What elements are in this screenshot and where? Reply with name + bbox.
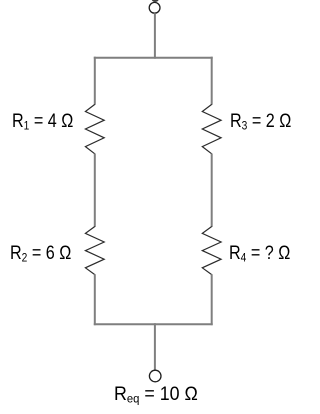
wire: top stem (154, 13, 156, 59)
wire: left branch upper (94, 57, 96, 105)
terminal (bottom) (149, 370, 161, 382)
label R2 = 6 ohm (10, 244, 71, 263)
wire: left branch lower (94, 274, 96, 325)
wire: bottom bus (94, 323, 213, 325)
wire: left branch middle (94, 154, 96, 228)
resistor R3 (202, 104, 221, 153)
label R4 = ? ohm (229, 244, 290, 263)
wire: top bus (94, 57, 213, 59)
top terminal stub (152, 0, 159, 2)
wire: right branch middle (211, 154, 213, 228)
wire: right branch upper (211, 57, 213, 105)
label R3 = 2 ohm (230, 112, 291, 131)
wire: right branch lower (211, 274, 213, 325)
resistor R2 (85, 227, 104, 275)
resistor R1 (85, 104, 104, 153)
resistor R4 (202, 227, 221, 275)
terminal (top) (149, 2, 160, 13)
label R1 = 4 ohm (12, 112, 73, 131)
wire: bottom stem (154, 323, 156, 370)
label Req = 10 ohm (114, 385, 198, 404)
